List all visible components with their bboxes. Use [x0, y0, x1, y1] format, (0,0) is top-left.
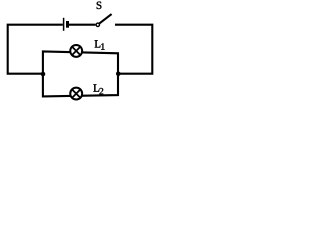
node: left junction dot [41, 72, 46, 77]
label L1 subscript 1 [101, 43, 104, 49]
battery B: short thick negative plate [66, 21, 69, 28]
label L1 letter L [95, 40, 101, 47]
battery B: long thin positive plate [63, 18, 65, 31]
lamp L2: cross filament [72, 90, 80, 98]
switch S: pivot contact circle [96, 23, 99, 26]
lamp L1: cross filament [72, 47, 80, 55]
node: right junction dot [116, 72, 121, 77]
lamp L1: bulb circle [70, 45, 82, 57]
wire: battery to switch [69, 24, 95, 26]
wire: top-left segment, left side, left mid connector [8, 25, 63, 74]
wire: inner parallel loop (left bar, top branch, right bar, bottom branch) [43, 51, 118, 96]
label S [97, 2, 102, 9]
label L2 letter L [93, 84, 99, 91]
wire: top-right segment, right side, right mid connector [115, 25, 152, 74]
lamp L2: bulb circle [70, 88, 82, 100]
label L2 subscript 2 [99, 88, 103, 94]
switch S: open lever blade [99, 14, 111, 23]
